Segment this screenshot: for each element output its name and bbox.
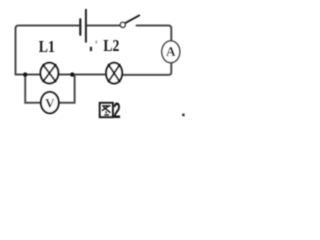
lamp L2 body: [106, 63, 122, 84]
battery B1 long plate (positive): [85, 10, 87, 42]
lamp L1 body: [41, 63, 59, 84]
svg-text:2: 2: [113, 99, 120, 123]
battery B1 short plate (negative): [79, 19, 81, 35]
wire: voltmeter right branch up to node B: [59, 75, 75, 103]
wire: left side and top-left run to battery: [16, 26, 80, 75]
lamp L1 cross stroke /: [43, 65, 55, 82]
ammeter A body: [162, 41, 180, 63]
svg-text:V: V: [45, 95, 55, 110]
svg-text:L2: L2: [103, 36, 119, 55]
svg-text:A: A: [166, 44, 176, 59]
wire: ammeter bottom to bottom-right corner, left to lamp L2: [122, 63, 171, 75]
wire: voltmeter left branch from node A: [25, 75, 41, 103]
lamp L2 cross stroke /: [109, 65, 120, 82]
wire: node B to lamp L1: [58, 74, 72, 76]
wire: lamp L2 to node B: [72, 74, 106, 76]
figure label 图2 glyph box: [100, 103, 113, 117]
svg-text:L1: L1: [39, 37, 55, 56]
wire: switch to top-right corner, down to ammeter: [137, 26, 172, 42]
wire: battery to switch: [87, 25, 120, 27]
node B junction dot: [70, 72, 74, 76]
wire: lamp L1 to node A and left corner: [16, 74, 41, 76]
switch S lever arm: [126, 15, 139, 22]
voltmeter V body: [41, 92, 59, 113]
lamp L2 cross stroke \: [109, 65, 120, 82]
lamp L1 cross stroke \: [43, 65, 55, 82]
switch S pivot circle: [120, 22, 125, 27]
node A junction dot: [23, 72, 27, 76]
